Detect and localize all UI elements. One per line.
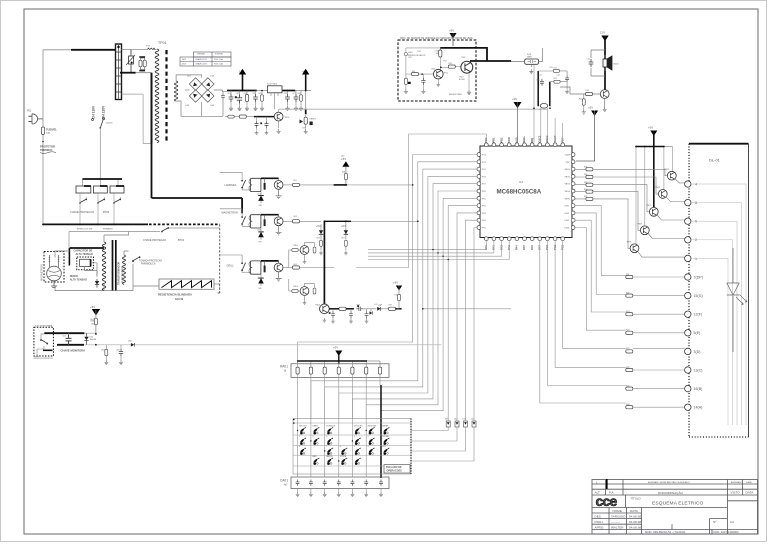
- svg-text:ALTA TENSAO: ALTA TENSAO: [76, 253, 93, 256]
- svg-text:DATA: DATA: [746, 481, 752, 484]
- svg-text:PRIMARIO: PRIMARIO: [103, 228, 113, 231]
- svg-text:100 W: 100 W: [175, 297, 183, 301]
- RA01 bus: [298, 360, 367, 362]
- filter box FL01: [525, 59, 539, 64]
- long wire from regulator area to right: [279, 108, 547, 110]
- svg-text:6: 6: [695, 220, 697, 224]
- wire sawtooth to dashed vertical: [214, 283, 220, 285]
- svg-text:R08: R08: [91, 321, 94, 323]
- svg-text:ESQUEMA ELETRICO: ESQUEMA ELETRICO: [652, 500, 704, 506]
- flyback diode: [258, 196, 264, 201]
- svg-text:TOMADA PROTECAO: TOMADA PROTECAO: [139, 260, 162, 263]
- svg-text:C04: C04: [63, 336, 66, 338]
- svg-text:DES.: DES.: [595, 514, 602, 518]
- svg-text:8: 8: [695, 201, 697, 205]
- svg-text:TCMP: TCMP: [565, 155, 571, 157]
- svg-text:BC548: BC548: [459, 79, 465, 81]
- svg-text:DATA: DATA: [746, 491, 755, 495]
- svg-text:ASSINADO: ASSINADO: [731, 481, 743, 484]
- matrix diode D12: [455, 421, 459, 427]
- bottom chain diode: [339, 307, 346, 310]
- protection box K1: [76, 186, 91, 193]
- thick vertical line left of transformer: [151, 73, 153, 144]
- svg-text:R01: R01: [294, 180, 297, 182]
- main 12V rail: [227, 90, 257, 92]
- svg-text:CIRC. DE SENSOR DE UMIDADE DO: CIRC. DE SENSOR DE UMIDADE DO SENSOR DE …: [400, 37, 474, 40]
- parabola switch: [132, 256, 140, 262]
- svg-text:PA6: PA6: [530, 245, 534, 250]
- svg-text:TERMICO: TERMICO: [40, 148, 52, 152]
- svg-text:12(F): 12(F): [694, 313, 703, 317]
- protection switch wire: [69, 228, 220, 248]
- mains wire down: [42, 119, 44, 224]
- wire thick top to selector: [71, 49, 122, 51]
- base resistor dark: [264, 266, 266, 273]
- svg-text:PROJ.: PROJ.: [595, 520, 604, 524]
- svg-text:CHAVE MONITORA: CHAVE MONITORA: [61, 349, 86, 353]
- display pin numbers: [694, 182, 703, 409]
- relay driver row1 (lampada) switch: [220, 172, 251, 190]
- svg-text:+5V: +5V: [316, 224, 321, 228]
- relay collector thick wire: [261, 214, 279, 216]
- svg-text:L01: L01: [375, 304, 378, 306]
- svg-text:R11: R11: [554, 67, 557, 69]
- display pin circles: [685, 181, 691, 411]
- svg-text:C03: C03: [244, 93, 247, 95]
- keyboard keys: [300, 427, 389, 465]
- sensor box contents: [404, 48, 469, 90]
- svg-text:TP01: TP01: [158, 41, 167, 45]
- IC01 top pins: [484, 143, 564, 147]
- svg-text:+5V: +5V: [341, 157, 346, 161]
- svg-text:R20: R20: [303, 128, 306, 130]
- svg-text:R16: R16: [418, 51, 421, 53]
- matrix diode D14: [472, 421, 476, 427]
- svg-text:LAMPADA: LAMPADA: [225, 184, 237, 187]
- svg-text:R33: R33: [584, 182, 587, 184]
- svg-text:OPERACOES: OPERACOES: [387, 470, 403, 473]
- svg-text:INTERLOCK MONITOR: INTERLOCK MONITOR: [34, 358, 54, 360]
- svg-text:D12: D12: [454, 419, 457, 421]
- segment wires from IC to display: [540, 206, 685, 408]
- svg-text:DIODO: DIODO: [70, 275, 78, 278]
- cap stems and grounds under rail: [231, 91, 301, 106]
- svg-text:cce: cce: [596, 493, 618, 509]
- filter capacitors on rails: [229, 94, 303, 104]
- svg-text:7: 7: [326, 446, 327, 448]
- svg-text:A3: A3: [730, 520, 734, 524]
- aux transistor TR03: [300, 287, 309, 296]
- chain caps: [254, 121, 258, 128]
- svg-text:PB1: PB1: [492, 137, 496, 143]
- svg-text:MENOS: MENOS: [326, 456, 333, 458]
- wire plug to top: [43, 50, 71, 119]
- driver transistor row3 (grill): [274, 263, 283, 272]
- svg-text:R14: R14: [579, 99, 582, 101]
- dashed vertical wire: [218, 224, 220, 293]
- svg-text:R21: R21: [626, 274, 629, 276]
- svg-text:C05: C05: [117, 350, 120, 352]
- svg-text:PARAR: PARAR: [383, 424, 389, 427]
- svg-text:SENSOR UMID.: SENSOR UMID.: [449, 94, 463, 96]
- svg-text:APRO.: APRO.: [595, 525, 605, 529]
- svg-text:D13: D13: [463, 419, 466, 421]
- svg-text:10k: 10k: [436, 53, 439, 55]
- thick column wire: [380, 385, 382, 478]
- svg-text:R41: R41: [412, 71, 415, 73]
- svg-text:DL-01: DL-01: [709, 158, 721, 163]
- svg-text:_____: _____: [610, 519, 620, 523]
- monitor diode: [84, 333, 88, 345]
- buzzer BZ01: [603, 56, 612, 70]
- matrix grid lines: [293, 423, 411, 466]
- svg-text:R05: R05: [102, 350, 105, 352]
- svg-text:IC02 7805: IC02 7805: [267, 83, 278, 85]
- svg-text:0: 0: [368, 446, 369, 448]
- svg-text:PORTA: PORTA: [340, 455, 347, 458]
- digit emitter wires to display: [638, 179, 685, 257]
- display DL-01 box: [689, 143, 749, 145]
- svg-text:BT03: BT03: [178, 239, 185, 242]
- switches under boxes: [79, 199, 87, 204]
- title block: [592, 480, 758, 535]
- svg-text:COD. 1047/2190902: COD. 1047/2190902: [713, 530, 739, 534]
- svg-text:15(G): 15(G): [694, 294, 703, 298]
- HV transformer winding primary: [102, 242, 105, 291]
- relay coil row3 (grill): [250, 261, 261, 274]
- svg-text:FUSIVEL: FUSIVEL: [46, 128, 57, 132]
- svg-text:C01: C01: [228, 93, 231, 95]
- svg-text:INICIAR: INICIAR: [383, 435, 390, 438]
- svg-text:R02: R02: [294, 216, 297, 218]
- svg-text:R35: R35: [584, 196, 587, 198]
- wire sensor box down: [534, 64, 547, 143]
- AC plug P01: [28, 114, 43, 124]
- svg-text:DISCRIMINAÇÃO: DISCRIMINAÇÃO: [658, 490, 684, 495]
- svg-text:CH 110V: CH 110V: [92, 105, 96, 119]
- thick wire to HV transformer: [70, 247, 104, 249]
- thermal fuse on primary feed: [147, 48, 155, 50]
- digit transistor T5: [630, 244, 639, 253]
- IC01 bottom pins: [484, 237, 564, 241]
- svg-text:D10: D10: [341, 156, 344, 158]
- wire transformer to protection boxes: [83, 179, 119, 186]
- driver transistor row2 (magnetron): [274, 217, 283, 226]
- svg-text:IC1: IC1: [519, 180, 524, 184]
- svg-text:PARABOLICA: PARABOLICA: [141, 263, 156, 266]
- svg-text:ASSINADO NOME ANOTADO A MUD: ASSINADO NOME ANOTADO A MUDADO: [648, 481, 690, 484]
- svg-text:4MHz: 4MHz: [527, 57, 532, 59]
- flyback diode: [258, 278, 264, 283]
- svg-text:PA3: PA3: [507, 245, 511, 250]
- CA01 ground stems: [298, 489, 381, 493]
- svg-text:R07: R07: [342, 238, 345, 240]
- svg-text:D08: D08: [258, 230, 261, 232]
- title block revision tick: [606, 479, 608, 489]
- main protection bus: [43, 223, 148, 225]
- svg-text:04.08.98: 04.08.98: [629, 514, 641, 518]
- fuse F01: [41, 127, 44, 135]
- magnetron tube: [47, 255, 62, 288]
- svg-text:OSC1: OSC1: [538, 135, 542, 143]
- svg-text:2: 2: [695, 238, 697, 242]
- sawtooth resistor box R02: [159, 279, 214, 289]
- svg-text:TR02: TR02: [461, 57, 465, 59]
- svg-text:R25: R25: [626, 348, 629, 350]
- svg-text:R09: R09: [91, 319, 94, 321]
- svg-text:INTERLOCK SW: INTERLOCK SW: [77, 229, 92, 231]
- bridge rectifier D01-D04: [189, 78, 214, 102]
- svg-text:D05: D05: [90, 337, 93, 339]
- svg-text:C05: C05: [258, 93, 261, 95]
- magnetron dashed box: [44, 252, 64, 283]
- IC01 side pin labels: [482, 155, 571, 230]
- svg-text:FUSIVEL: FUSIVEL: [215, 54, 224, 56]
- svg-text:CH 220V: CH 220V: [102, 105, 106, 119]
- segment resistors: [626, 275, 633, 408]
- svg-text:P01: P01: [27, 110, 32, 113]
- svg-text:RESET: RESET: [310, 119, 317, 121]
- long keyboard sense wire: [85, 344, 442, 346]
- junction dots on RA01 bus: [297, 360, 382, 461]
- svg-text:D14: D14: [471, 419, 474, 421]
- digit transistor T3: [649, 207, 658, 216]
- svg-text:C02: C02: [236, 93, 239, 95]
- svg-text:R17: R17: [444, 61, 447, 63]
- digit driver base wires: [575, 169, 667, 248]
- svg-text:C12: C12: [557, 75, 560, 77]
- svg-text:1N4148: 1N4148: [90, 339, 97, 341]
- keyboard column verticals: [298, 374, 380, 477]
- matrix top corner dots: [293, 419, 295, 424]
- svg-text:R19: R19: [389, 305, 392, 307]
- title block small texts: [595, 480, 755, 534]
- svg-text:VDD: VDD: [507, 137, 511, 143]
- base resistor row1 (lampada): [283, 184, 293, 186]
- svg-text:+5V: +5V: [588, 106, 593, 110]
- svg-text:POTENCIA: POTENCIA: [326, 424, 336, 427]
- svg-text:CHAVE 110V: CHAVE 110V: [195, 58, 207, 61]
- thick feeder above boxes: [83, 178, 123, 180]
- svg-text:1: 1: [299, 436, 300, 438]
- wires IC top pins up to oscillator: [525, 118, 563, 143]
- svg-text:CA01: CA01: [280, 479, 288, 483]
- thermistor component: [126, 50, 135, 73]
- svg-text:R12: R12: [554, 78, 557, 80]
- transistor Q buzzer: [600, 90, 609, 99]
- flyback diode: [258, 232, 264, 237]
- svg-text:DESCONG: DESCONG: [354, 425, 363, 427]
- svg-text:+5V: +5V: [333, 346, 338, 350]
- HV capacitor dashed box: [77, 257, 94, 270]
- transformer TP01 primary winding: [155, 49, 159, 143]
- svg-text:VSS: VSS: [515, 137, 519, 142]
- thick stub at HV cap: [68, 248, 70, 266]
- svg-text:MOD. MW-8501A-54 - (TH3020: MOD. MW-8501A-54 - (TH3020): [645, 530, 685, 534]
- base resistor row3 (grill): [283, 267, 293, 269]
- 12V secondary chain: [225, 116, 254, 118]
- base resistor row2 (magnetron): [283, 220, 293, 222]
- svg-text:PB2: PB2: [499, 137, 503, 143]
- svg-text:MAGNETRON: MAGNETRON: [222, 212, 238, 215]
- thick wire from sensor box: [440, 48, 511, 61]
- svg-text:PC0: PC0: [545, 244, 549, 250]
- svg-text:SEG4: SEG4: [565, 191, 571, 193]
- buzzer feed line: [604, 36, 606, 91]
- thick neutral line from transformer: [152, 144, 243, 214]
- sense wire components: [105, 349, 108, 355]
- svg-text:12V: 12V: [600, 31, 605, 35]
- svg-text:DATA: DATA: [630, 509, 639, 513]
- svg-text:C13: C13: [587, 59, 590, 61]
- matrix diode D13: [464, 421, 468, 427]
- digit transistor T1: [667, 171, 676, 180]
- svg-text:+5V: +5V: [393, 281, 398, 285]
- svg-text:R26: R26: [626, 367, 629, 369]
- wire to sawtooth resistor: [133, 285, 159, 287]
- svg-text:OSC2: OSC2: [545, 135, 549, 143]
- keyboard column wires from IC left pins: [298, 155, 477, 419]
- svg-text:R32: R32: [584, 174, 587, 176]
- svg-text:R23: R23: [626, 311, 629, 313]
- capacitor array CA01: [291, 477, 389, 489]
- svg-text:SEG1: SEG1: [565, 169, 571, 171]
- svg-text:D11: D11: [445, 419, 448, 421]
- svg-text:BT02: BT02: [103, 210, 110, 214]
- HV transformer secondary: [123, 255, 126, 284]
- capacitor C buzzer: [589, 59, 594, 67]
- svg-text:R06: R06: [317, 238, 320, 240]
- display internal wires: [691, 184, 746, 425]
- base resistor dark: [264, 219, 266, 226]
- svg-text:CHAVE PROTECAO: CHAVE PROTECAO: [143, 239, 166, 242]
- svg-text:RA01: RA01: [280, 365, 288, 369]
- svg-text:TR01: TR01: [431, 69, 435, 71]
- svg-text:SEG5: SEG5: [565, 198, 571, 200]
- digit driver collector feeds: [636, 147, 672, 244]
- driver transistor row1 (lampada): [274, 181, 283, 190]
- svg-text:4u7: 4u7: [284, 484, 289, 487]
- svg-text:VISTO: VISTO: [731, 491, 741, 495]
- IC01 top pin labels: [484, 135, 564, 143]
- svg-text:VPP: VPP: [566, 162, 571, 164]
- svg-text:R11: R11: [550, 67, 553, 69]
- relay collector thick wire: [261, 177, 279, 179]
- svg-text:9: 9: [354, 446, 355, 448]
- svg-text:8: 8: [340, 446, 341, 448]
- matrix diode D11: [446, 421, 450, 427]
- wires HV transformer top/bottom: [104, 232, 133, 291]
- svg-text:C15: C15: [537, 80, 540, 82]
- svg-text:R27: R27: [626, 385, 629, 387]
- display LED: [727, 248, 747, 352]
- svg-text:04.08.98: 04.08.98: [629, 520, 641, 524]
- svg-text:+5V: +5V: [90, 305, 95, 309]
- selector feed wire: [99, 128, 101, 179]
- svg-text:CHAVE 220V: CHAVE 220V: [195, 62, 208, 65]
- key labels: [299, 424, 389, 458]
- thick vertical driver bus: [323, 221, 325, 307]
- transistor Q01: [274, 112, 283, 121]
- svg-text:PA4: PA4: [515, 245, 519, 250]
- teclado label box: [384, 465, 410, 474]
- digit driver base resistors: [586, 168, 593, 201]
- svg-text:FUS. 10A: FUS. 10A: [214, 62, 223, 65]
- svg-text:+5V: +5V: [648, 126, 653, 130]
- monitor cap: [66, 335, 72, 345]
- thick neutral from selector: [120, 72, 136, 74]
- selector lower loop wire: [122, 94, 152, 143]
- svg-text:TR10: TR10: [285, 117, 290, 119]
- svg-text:RELOGIO: RELOGIO: [299, 425, 307, 427]
- bottom driver transistor TR04: [320, 304, 330, 314]
- voltage table top middle: [180, 52, 231, 66]
- svg-text:2: 2: [312, 436, 313, 438]
- protection box K2: [94, 186, 108, 193]
- svg-text:3(D): 3(D): [694, 350, 701, 354]
- svg-text:TENSAO: TENSAO: [197, 53, 206, 56]
- svg-text:R42: R42: [436, 51, 439, 53]
- resistor array RA01: [291, 364, 389, 378]
- svg-text:TIMER: TIMER: [312, 425, 318, 427]
- svg-text:PA5: PA5: [522, 245, 526, 250]
- RA01 stems: [298, 361, 380, 367]
- svg-text:TÍTULO:: TÍTULO:: [631, 497, 642, 501]
- svg-text:RECEITAS: RECEITAS: [368, 424, 377, 427]
- svg-text:4: 4: [695, 182, 697, 186]
- digit transistor T4: [640, 226, 649, 235]
- svg-text:C08: C08: [297, 93, 300, 95]
- base resistor dark: [264, 183, 266, 190]
- svg-text:5: 5: [368, 436, 369, 438]
- aux transistor TR02: [300, 246, 309, 255]
- svg-text:13(C): 13(C): [694, 368, 703, 372]
- keyboard row wires from IC left pins: [411, 206, 477, 461]
- svg-text:WALTER: WALTER: [611, 525, 624, 529]
- svg-text:MC68HC05C8A: MC68HC05C8A: [497, 189, 542, 196]
- svg-text:REL: REL: [383, 446, 386, 448]
- svg-text:FUS. 20A: FUS. 20A: [214, 58, 223, 61]
- svg-text:TARCISIO: TARCISIO: [611, 514, 626, 518]
- HV transformer core: [113, 240, 116, 291]
- svg-text:R28: R28: [626, 404, 629, 406]
- svg-text:D09: D09: [258, 278, 261, 280]
- svg-text:SEG2: SEG2: [565, 176, 571, 178]
- svg-text:SEG3: SEG3: [565, 184, 571, 186]
- svg-text:16(B): 16(B): [694, 387, 703, 391]
- svg-text:R22: R22: [626, 292, 629, 294]
- svg-text:C07: C07: [292, 93, 295, 95]
- svg-text:+5V: +5V: [341, 224, 346, 228]
- relay collector thick wire: [261, 260, 279, 262]
- protection box K3: [110, 186, 124, 193]
- svg-text:MAGNETRON: MAGNETRON: [40, 264, 44, 281]
- driver output wires to fan: [351, 134, 511, 309]
- wires HV section: [55, 251, 104, 291]
- svg-text:+5V: +5V: [512, 97, 517, 101]
- svg-text:TR11: TR11: [444, 73, 448, 75]
- svg-text:NOME: NOME: [613, 509, 622, 513]
- svg-text:PA2: PA2: [499, 245, 503, 250]
- svg-text:R31: R31: [584, 167, 587, 169]
- relay coil row1 (lampada): [250, 178, 261, 191]
- IC01 right pins: [571, 153, 575, 230]
- svg-text:R24: R24: [626, 330, 629, 332]
- monitor thick wires: [44, 332, 84, 334]
- svg-text:S.W. INTERTRAVA: S.W. INTERTRAVA: [35, 324, 53, 327]
- keyboard matrix box: [293, 419, 411, 475]
- relay driver row3 (grill) switch: [220, 255, 251, 273]
